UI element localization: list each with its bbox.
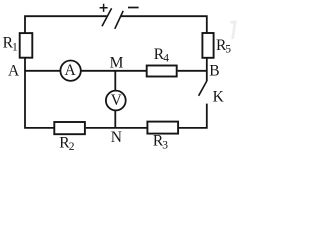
resistor R2	[54, 122, 85, 134]
svg-text:4: 4	[163, 53, 169, 65]
svg-text:K: K	[213, 89, 225, 106]
ammeter A	[60, 60, 80, 80]
svg-text:2: 2	[69, 141, 75, 153]
wire R3 to node N	[115, 127, 147, 129]
switch K lever	[199, 81, 207, 96]
svg-text:N: N	[111, 129, 122, 146]
battery minus sign	[128, 7, 139, 9]
svg-text:V: V	[111, 92, 122, 109]
svg-text:5: 5	[225, 44, 231, 56]
svg-text:3: 3	[162, 139, 168, 151]
svg-text:B: B	[209, 62, 219, 79]
wire R2 to node N	[86, 127, 116, 129]
wire left rail and bottom-left wire	[25, 58, 54, 128]
voltmeter V	[106, 91, 126, 111]
svg-text:1: 1	[12, 41, 18, 53]
wire right rail R5 to switch top	[206, 58, 208, 81]
wire R4 to node B	[178, 70, 207, 72]
wire top-left with left rail top	[25, 16, 107, 33]
svg-text:A: A	[64, 62, 76, 79]
resistor R4	[147, 66, 177, 77]
wire top-right with right rail top	[121, 16, 207, 33]
wire switch bottom to bottom-right corner	[179, 104, 207, 128]
wire M branch down to voltmeter	[114, 71, 116, 91]
wire ammeter to R4 through node M	[81, 70, 146, 72]
battery slash 1	[102, 8, 112, 26]
resistor R5	[202, 33, 213, 58]
resistor R3	[147, 122, 178, 134]
wire voltmeter to node N	[114, 110, 116, 128]
wire node A to ammeter	[25, 70, 60, 72]
watermark	[231, 20, 237, 39]
battery slash 2	[115, 11, 123, 29]
battery plus sign	[100, 4, 108, 12]
svg-text:A: A	[8, 62, 20, 79]
resistor R1	[20, 33, 33, 58]
svg-text:M: M	[110, 54, 124, 71]
